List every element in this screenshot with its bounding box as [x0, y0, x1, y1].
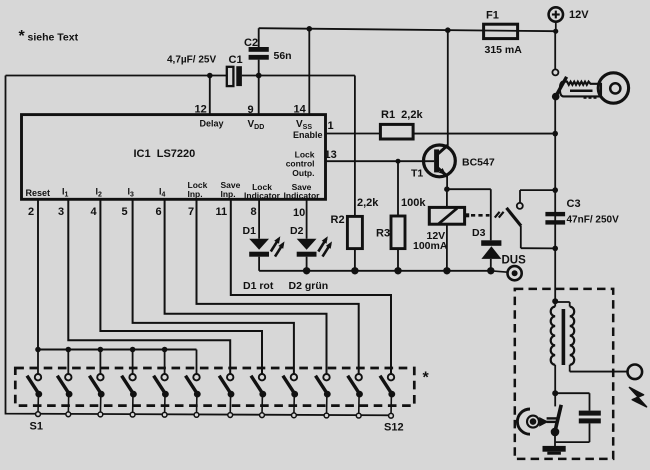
wire emitter to D3 — [447, 189, 491, 240]
node reset S5 — [162, 347, 168, 353]
svg-text:siehe Text: siehe Text — [28, 31, 79, 43]
svg-text:S1: S1 — [30, 420, 43, 432]
fuse F1 — [484, 10, 523, 57]
label D2 gruen — [289, 280, 329, 292]
note asterisk keypad — [423, 370, 430, 387]
wire stub S4 — [132, 350, 134, 375]
switch S1 — [27, 374, 42, 417]
switch S7 — [219, 374, 234, 417]
svg-text:R1 2,2k: R1 2,2k — [381, 109, 423, 121]
node R3 bus junction — [394, 267, 401, 274]
wire key line middle — [554, 134, 556, 249]
node relay bus junction — [443, 267, 450, 274]
node D3 bus junction — [487, 267, 494, 274]
svg-text:315 mA: 315 mA — [485, 44, 523, 56]
node C3 bottom junction — [552, 246, 558, 252]
resistor R2 — [331, 197, 380, 271]
wire pin 1 Enable — [326, 133, 381, 135]
capacitor C2 — [244, 28, 292, 75]
svg-text:R2: R2 — [331, 214, 345, 226]
pin 5 label — [122, 206, 128, 218]
wire pin 2 reset — [37, 199, 39, 349]
terminal spark output — [628, 365, 643, 380]
wire pin 6 to S10 — [165, 199, 327, 374]
pin 8 label — [251, 206, 257, 218]
wire HT output — [570, 371, 628, 373]
node D2 bus junction — [303, 267, 310, 274]
wire left rail and bottom switch bus — [6, 76, 392, 416]
wire R2 top drop — [354, 76, 356, 217]
resistor R1 — [380, 109, 423, 139]
svg-text:100k: 100k — [401, 197, 426, 209]
svg-text:Delay: Delay — [200, 118, 224, 128]
switch S3 — [89, 374, 104, 417]
wire pin 5 to S9 — [133, 199, 294, 374]
pin 4 label — [91, 206, 98, 218]
label S12 — [384, 422, 404, 434]
switch S11 — [348, 374, 363, 418]
pin 1 label — [328, 120, 334, 132]
svg-text:14: 14 — [294, 104, 307, 116]
box ignition dashed — [515, 289, 613, 459]
wire pin 13 lock control — [326, 160, 435, 162]
wire pin 9 — [258, 76, 260, 115]
node VDD junction — [256, 73, 262, 79]
transformer ignition coil — [551, 301, 575, 393]
wire to ignition coil — [554, 248, 556, 301]
svg-text:10: 10 — [293, 207, 305, 219]
pin 6 label — [156, 206, 162, 218]
svg-text:9: 9 — [248, 104, 254, 116]
LED D2 — [290, 199, 332, 270]
wire pin 7 to S11 — [197, 199, 359, 374]
svg-text:1: 1 — [328, 120, 334, 132]
wire pin 14 — [308, 29, 310, 115]
svg-text:100mA: 100mA — [413, 240, 448, 252]
pin 13 label — [325, 149, 337, 161]
svg-text:D2 grün: D2 grün — [289, 280, 329, 292]
wire stub S2 — [67, 350, 69, 375]
capacitor C1 — [167, 54, 243, 86]
node reset S3 — [98, 347, 104, 353]
key icon — [560, 73, 629, 103]
node pin14 junction — [307, 26, 313, 32]
svg-text:C3: C3 — [567, 198, 581, 210]
svg-text:8: 8 — [251, 206, 257, 218]
wire stub S6 — [196, 350, 198, 375]
wire pin 4 to S8 — [100, 199, 262, 374]
wire stub S5 — [164, 350, 166, 375]
wire condenser branch — [555, 393, 589, 442]
svg-text:6: 6 — [156, 206, 162, 218]
svg-text:Indicator: Indicator — [244, 191, 281, 201]
node pin1-key junction — [552, 131, 558, 137]
svg-text:13: 13 — [325, 149, 337, 161]
pin 2 label — [28, 206, 34, 218]
label D1 rot — [243, 280, 274, 292]
node emitter junction — [444, 186, 450, 192]
node reset S4 — [130, 347, 136, 353]
transistor T1 BC547 — [411, 145, 495, 179]
svg-text:4,7µF/ 25V: 4,7µF/ 25V — [167, 55, 216, 66]
wire indicator bus — [259, 270, 491, 272]
svg-text:R3: R3 — [376, 228, 390, 240]
wire emitter to relay — [446, 189, 448, 207]
switch S8 — [251, 374, 266, 418]
IC U1 LS7220 — [22, 115, 326, 201]
svg-text:3: 3 — [58, 206, 64, 218]
svg-text:Reset: Reset — [26, 188, 51, 198]
svg-text:2: 2 — [28, 206, 34, 218]
resistor R3 — [376, 161, 426, 271]
svg-text:C1: C1 — [229, 54, 243, 66]
wire pin 3 to S7 — [68, 199, 230, 374]
node C3 top junction — [552, 187, 558, 193]
svg-text:2,2k: 2,2k — [357, 197, 379, 209]
wire top supply rail — [259, 28, 556, 31]
svg-text:Inp.: Inp. — [221, 189, 236, 199]
switch S2 — [57, 374, 72, 417]
capacitor condenser — [579, 411, 601, 424]
pin 11 label — [216, 206, 228, 218]
pin 9 label — [248, 104, 254, 116]
svg-text:12V: 12V — [569, 9, 589, 21]
svg-text:D2: D2 — [290, 225, 304, 237]
svg-text:F1: F1 — [486, 10, 499, 22]
ground ignition — [543, 446, 566, 455]
capacitor C3 — [545, 198, 619, 226]
switch S5 — [154, 374, 169, 417]
wire pin 11 to S12 — [231, 199, 391, 374]
svg-text:Inp.: Inp. — [188, 189, 203, 199]
node points junction — [552, 390, 558, 396]
wire VDD horizontal — [6, 75, 355, 77]
switch S9 — [283, 374, 298, 418]
pin 12 label — [195, 104, 207, 116]
pin 3 label — [58, 206, 64, 218]
node R2 bus junction — [351, 267, 358, 274]
node reset S1 — [35, 347, 41, 353]
switch S12 — [380, 374, 395, 418]
svg-text:T1: T1 — [411, 167, 423, 179]
pin 10 label — [293, 207, 305, 219]
relay coil 12V 100mA — [413, 207, 469, 252]
svg-text:56n: 56n — [274, 50, 292, 62]
svg-text:4: 4 — [91, 206, 98, 218]
switch breaker points — [517, 393, 561, 446]
svg-text:IC1 LS7220: IC1 LS7220 — [134, 148, 196, 160]
pin 7 label — [188, 206, 194, 218]
wire pin 12 — [209, 76, 211, 115]
svg-text:D1 rot: D1 rot — [243, 280, 274, 292]
node collector junction — [445, 27, 451, 33]
node R3 top junction — [396, 159, 401, 164]
node 12V rail junction — [553, 29, 558, 34]
svg-text:Enable: Enable — [293, 130, 323, 140]
svg-text:D1: D1 — [243, 225, 257, 237]
terminal +12V — [549, 7, 590, 29]
wire reset bus — [38, 349, 197, 351]
label S1 — [30, 420, 43, 432]
wire R1 to key line — [413, 133, 555, 135]
wire stub S1 — [37, 350, 39, 375]
switch S10 — [316, 374, 331, 418]
svg-text:BC547: BC547 — [462, 157, 495, 169]
svg-text:47nF/ 250V: 47nF/ 250V — [567, 215, 620, 226]
terminal DUS — [491, 266, 522, 280]
svg-text:*: * — [19, 28, 26, 45]
svg-text:11: 11 — [216, 206, 228, 218]
svg-text:D3: D3 — [472, 227, 486, 239]
svg-text:Outp.: Outp. — [292, 168, 314, 178]
svg-text:7: 7 — [188, 206, 194, 218]
node reset S2 — [66, 347, 72, 353]
node pin12 junction — [207, 73, 213, 79]
node coil top junction — [552, 298, 558, 304]
box keypad dashed — [15, 368, 414, 406]
switch S4 — [122, 374, 137, 417]
svg-text:12: 12 — [195, 104, 207, 116]
linkage relay to contact — [471, 212, 504, 218]
svg-text:Indicator: Indicator — [284, 191, 321, 201]
pin 14 label — [294, 104, 307, 116]
diode D3 DUS — [472, 227, 526, 271]
svg-text:5: 5 — [122, 206, 128, 218]
wire emitter — [446, 176, 448, 190]
switch key-operated — [552, 31, 567, 133]
icon spark bolt — [630, 388, 647, 407]
note siehe Text — [19, 28, 79, 45]
wire collector — [447, 30, 449, 146]
LED D1 — [243, 199, 285, 270]
wire relay to bus — [446, 224, 448, 271]
svg-text:S12: S12 — [384, 422, 404, 434]
switch relay contact — [507, 190, 556, 248]
switch S6 — [186, 374, 201, 417]
svg-text:*: * — [423, 370, 430, 387]
svg-text:DUS: DUS — [502, 254, 527, 266]
wire stub S3 — [99, 350, 101, 375]
